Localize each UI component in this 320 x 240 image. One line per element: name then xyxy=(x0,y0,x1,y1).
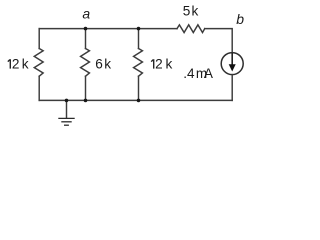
current source arrow shaft xyxy=(231,54,233,66)
junction dot ground xyxy=(65,99,69,103)
label 5 k xyxy=(183,4,199,19)
ground stem xyxy=(66,100,68,117)
6k bottom lead xyxy=(85,76,87,100)
junction dot 12k2 bottom xyxy=(137,99,141,103)
6k top lead from node a xyxy=(85,29,87,49)
svg-text:2: 2 xyxy=(155,57,163,72)
current source circle I1 xyxy=(221,53,243,75)
svg-text:.4: .4 xyxy=(183,66,195,81)
left rail bottom lead 12k xyxy=(38,76,40,100)
svg-text:k: k xyxy=(22,57,29,72)
wire 5k right lead to corner b xyxy=(205,29,233,53)
bottom wire middle segment xyxy=(86,99,139,101)
resistor R2 6k zigzag xyxy=(81,49,90,77)
ground bar 1 xyxy=(58,117,74,119)
svg-text:k: k xyxy=(104,57,111,72)
svg-text:2: 2 xyxy=(12,57,20,72)
label 12 k right resistor xyxy=(151,57,172,72)
label .4 mA xyxy=(183,66,214,81)
ground bar 3 xyxy=(64,124,69,126)
svg-text:k: k xyxy=(166,57,173,72)
svg-text:k: k xyxy=(191,4,198,19)
svg-text:a: a xyxy=(82,6,90,22)
label 12 k left resistor xyxy=(8,57,29,72)
bottom wire right segment xyxy=(139,99,233,101)
current source arrowhead xyxy=(229,64,236,71)
resistor R3 12k zigzag xyxy=(134,49,143,77)
wire 12k2 top to 5k left lead xyxy=(139,28,178,30)
svg-text:5: 5 xyxy=(183,4,191,19)
resistor 5k zigzag xyxy=(177,25,205,33)
left rail top lead 12k xyxy=(38,29,40,49)
svg-text:A: A xyxy=(204,66,214,81)
bottom wire ground segment xyxy=(67,99,86,101)
svg-text:b: b xyxy=(236,11,244,27)
bottom wire left segment xyxy=(39,99,66,101)
12k2 bottom lead xyxy=(138,76,140,100)
wire node a to 12k2 top xyxy=(86,28,139,30)
junction dot 6k bottom xyxy=(84,99,88,103)
svg-text:6: 6 xyxy=(95,57,103,72)
junction dot 12k2 top xyxy=(137,27,141,31)
node a junction dot xyxy=(84,27,88,31)
label 6 k xyxy=(95,57,111,72)
wire current source bottom to bottom rail xyxy=(231,75,233,101)
12k2 top lead xyxy=(138,29,140,49)
wire top from left rail to node a xyxy=(39,28,85,30)
ground bar 2 xyxy=(61,121,71,123)
resistor R1 12k zigzag xyxy=(34,49,43,77)
